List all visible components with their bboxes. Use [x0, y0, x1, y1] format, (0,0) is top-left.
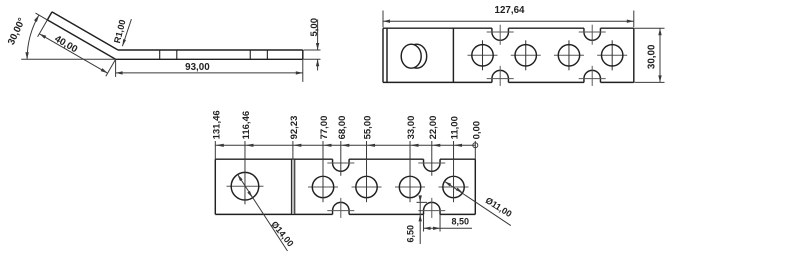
- svg-text:11,00: 11,00: [450, 116, 461, 139]
- svg-text:30,00: 30,00: [647, 44, 658, 69]
- svg-text:0,00: 0,00: [471, 121, 482, 140]
- svg-text:92,23: 92,23: [289, 116, 300, 140]
- svg-text:127,64: 127,64: [495, 5, 526, 16]
- svg-text:116,46: 116,46: [241, 111, 252, 140]
- svg-text:68,00: 68,00: [337, 116, 348, 140]
- svg-text:131,46: 131,46: [211, 110, 222, 139]
- svg-text:22,00: 22,00: [428, 116, 439, 140]
- svg-text:6,50: 6,50: [406, 225, 416, 243]
- svg-text:5,00: 5,00: [309, 18, 320, 37]
- svg-text:55,00: 55,00: [363, 116, 374, 140]
- svg-text:77,00: 77,00: [319, 116, 330, 140]
- svg-text:8,50: 8,50: [452, 216, 470, 226]
- svg-text:93,00: 93,00: [185, 62, 210, 73]
- svg-text:33,00: 33,00: [406, 116, 417, 140]
